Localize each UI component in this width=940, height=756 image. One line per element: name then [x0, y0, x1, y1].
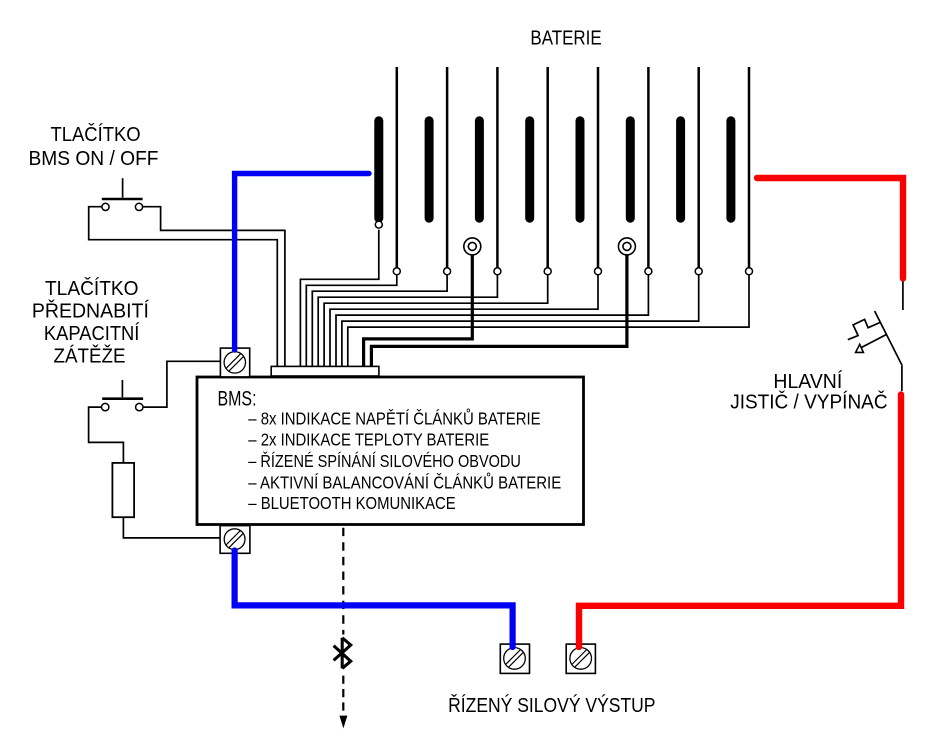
terminal T2 (BMS bottom) — [220, 526, 250, 554]
wire resistor to terminal T2 — [123, 517, 221, 538]
push button S2 (precharge) — [102, 380, 143, 399]
sense wire cell 7 — [342, 275, 699, 367]
cell 8 negative plate — [726, 121, 735, 218]
S2 contact circles — [102, 403, 144, 410]
terminal T3 (output minus) — [500, 644, 529, 673]
svg-text:– 2x INDIKACE TEPLOTY BATERIE: – 2x INDIKACE TEPLOTY BATERIE — [248, 430, 489, 450]
svg-text:BMS ON / OFF: BMS ON / OFF — [29, 148, 159, 170]
temperature sensor 1 — [464, 238, 481, 255]
svg-text:– 8x INDIKACE NAPĚTÍ ČLÁNKŮ BA: – 8x INDIKACE NAPĚTÍ ČLÁNKŮ BATERIE — [248, 407, 540, 428]
S1 actuator stem — [122, 178, 124, 197]
bluetooth dashed line upper — [342, 528, 344, 635]
node cell 6 — [645, 268, 652, 275]
node cell 8 — [746, 268, 753, 275]
cell 1 negative plate — [374, 121, 383, 218]
sense wire battery minus — [300, 230, 378, 367]
BMS box — [197, 377, 584, 525]
svg-text:ŘÍZENÝ SILOVÝ VÝSTUP: ŘÍZENÝ SILOVÝ VÝSTUP — [448, 694, 655, 717]
wire S2 right contact to terminal T1 — [143, 361, 220, 407]
cell 2 positive plate — [446, 67, 449, 268]
wire S1 left contact to BMS (wire B) — [89, 207, 278, 367]
sense wire cell 2 — [312, 275, 447, 367]
breaker trip triangle — [856, 344, 864, 352]
cell 3 positive plate — [496, 67, 499, 268]
cell 4 positive plate — [546, 67, 549, 268]
bluetooth symbol — [334, 638, 351, 669]
terminal T1 (BMS top) — [220, 348, 249, 377]
cell 8 positive plate — [748, 67, 751, 268]
node cell 4 — [544, 268, 551, 275]
S1 contact circles — [102, 203, 143, 210]
svg-text:HLAVNÍ: HLAVNÍ — [773, 370, 842, 393]
breaker Q1 (HLAVNI JISTIC) — [848, 311, 902, 366]
node battery minus — [375, 221, 382, 228]
cell 6 negative plate — [626, 121, 635, 218]
blue power wire bottom (terminal T2 to output) — [235, 551, 513, 648]
svg-text:KAPACITNÍ: KAPACITNÍ — [44, 322, 140, 345]
cell 4 negative plate — [525, 121, 534, 218]
node cell 2 — [444, 268, 451, 275]
terminal T4 (output plus) — [566, 644, 595, 673]
breaker upper lead — [902, 282, 904, 311]
sense wire cell 6 — [336, 275, 648, 367]
node cell 7 — [695, 268, 702, 275]
breaker flag — [848, 319, 880, 339]
svg-text:PŘEDNABITÍ: PŘEDNABITÍ — [32, 299, 149, 322]
battery cells: thick bars (negative plates) — [379, 121, 731, 218]
red power wire top (battery plus to breaker) — [757, 178, 903, 279]
cell 1 positive plate — [396, 67, 399, 268]
battery cells: thin lines (positive plates) — [397, 67, 749, 268]
temperature sensor 1 wire — [364, 255, 473, 367]
wire S1 right contact to BMS (wire A) — [143, 207, 285, 367]
cell 7 negative plate — [676, 121, 685, 218]
cell 7 positive plate — [697, 67, 700, 268]
cell 3 negative plate — [475, 121, 484, 218]
bluetooth dashed line lower — [342, 676, 344, 716]
breaker trip linkage — [861, 335, 887, 348]
svg-text:BATERIE: BATERIE — [530, 27, 601, 49]
sense wire cell 1 — [306, 275, 397, 367]
cell 6 positive plate — [647, 67, 650, 268]
resistor R1 (precharge) — [112, 463, 134, 517]
BMS connector strip — [271, 366, 379, 376]
svg-text:– BLUETOOTH KOMUNIKACE: – BLUETOOTH KOMUNIKACE — [248, 493, 456, 513]
node cell 1 — [393, 268, 400, 275]
sense wire cell 5 — [330, 275, 598, 367]
S2 contact bar — [102, 397, 143, 400]
svg-text:TLAČÍTKO: TLAČÍTKO — [45, 277, 139, 300]
wire S2 left contact to resistor — [89, 407, 124, 463]
node cell 5 — [595, 268, 602, 275]
svg-text:JISTIČ / VYPÍNAČ: JISTIČ / VYPÍNAČ — [730, 391, 887, 414]
svg-text:ZÁTĚŽE: ZÁTĚŽE — [54, 345, 126, 368]
sense wire cell 8 — [348, 275, 749, 367]
cell voltage sense wires — [300, 230, 749, 367]
S2 actuator stem — [121, 380, 123, 397]
svg-text:TLAČÍTKO: TLAČÍTKO — [51, 123, 141, 146]
temperature sensor 2 wire — [371, 255, 627, 367]
svg-text:BMS:: BMS: — [218, 388, 257, 411]
breaker blade — [875, 311, 903, 366]
sense wire cell 3 — [318, 275, 497, 367]
cell 2 negative plate — [425, 121, 434, 218]
breaker lower lead — [901, 366, 903, 391]
svg-text:– ŘÍZENÉ SPÍNÁNÍ SILOVÉHO OBVO: – ŘÍZENÉ SPÍNÁNÍ SILOVÉHO OBVODU — [248, 450, 521, 471]
cell 5 positive plate — [597, 67, 600, 268]
temperature sensor 2 — [618, 238, 635, 255]
S1 contact bar — [102, 198, 143, 201]
push button S1 (BMS ON/OFF) — [102, 178, 143, 199]
cell 5 negative plate — [576, 121, 585, 218]
node cell 3 — [494, 268, 501, 275]
blue power wire top (battery minus to terminal T1) — [235, 174, 369, 351]
node circles at cell junctions — [375, 221, 752, 275]
svg-text:– AKTIVNÍ BALANCOVÁNÍ ČLÁNKŮ B: – AKTIVNÍ BALANCOVÁNÍ ČLÁNKŮ BATERIE — [248, 472, 561, 493]
sense wire cell 4 — [324, 275, 548, 367]
bluetooth arrow — [339, 716, 347, 729]
red power wire bottom (breaker to output) — [579, 395, 901, 648]
